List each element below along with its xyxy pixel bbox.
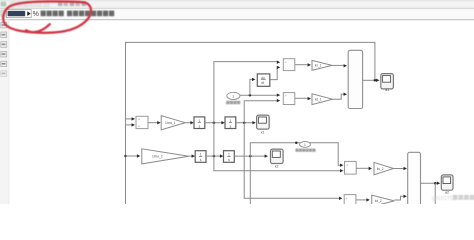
gain ks_1 xyxy=(312,60,332,70)
svg-text:%: % xyxy=(33,11,39,18)
left tool palette xyxy=(0,20,9,205)
svg-text:1: 1 xyxy=(230,119,232,123)
svg-text:-: - xyxy=(346,170,347,174)
wire into sum S3 top input xyxy=(338,163,341,165)
svg-text:ks_1: ks_1 xyxy=(315,64,322,68)
svg-text:1/mu_2: 1/mu_2 xyxy=(152,155,163,159)
svg-text:+: + xyxy=(285,60,287,64)
svg-text:+: + xyxy=(138,124,140,128)
integrator I3 xyxy=(195,151,206,163)
wire M2 to scope a2 xyxy=(421,182,438,184)
vertical wire from row1 node up to SB and down to S4 xyxy=(244,101,340,199)
palette icons xyxy=(1,22,7,76)
red pen tail stroke xyxy=(26,24,50,32)
mux M2 (clipped at bottom) xyxy=(408,152,421,208)
wire G2 to I3 xyxy=(189,155,193,157)
red hand-drawn ellipse annotation xyxy=(3,1,91,33)
wire S4 to gain kd_2 xyxy=(356,199,367,201)
wire ks_1 to mux M1 xyxy=(332,64,345,66)
outport oval P2 xyxy=(300,142,311,148)
gain ks_2 xyxy=(374,162,394,174)
node before outport oval xyxy=(295,141,298,144)
wire SB to gain kd_1 xyxy=(295,97,309,99)
integrator I4 xyxy=(224,151,235,163)
wire S1 to G1 xyxy=(148,122,158,124)
toolbar green icon xyxy=(1,2,7,7)
svg-text:a2: a2 xyxy=(445,191,449,195)
breadcrumb left icon xyxy=(1,10,6,16)
wire kd_1 to mux M1 with jog xyxy=(333,94,345,99)
svg-text:s: s xyxy=(230,124,232,128)
svg-text:-: - xyxy=(285,100,286,104)
breadcrumb bar xyxy=(0,9,474,19)
wire stub into sum S1 top input xyxy=(126,118,134,120)
sum S3 xyxy=(345,161,357,174)
wire S3 to gain ks_2 xyxy=(356,167,369,169)
svg-text:@51CTO: @51CTO xyxy=(432,196,455,202)
gain G1 1/ms_1 xyxy=(161,116,185,130)
window title chinese text (drawn as glyph blocks) xyxy=(41,11,115,17)
svg-text:+: + xyxy=(346,164,348,168)
wire stub into sum S1 bottom input xyxy=(126,124,134,126)
wire to gain G2 input xyxy=(126,155,138,157)
svg-text:-: - xyxy=(285,67,286,71)
sum SA xyxy=(283,59,295,71)
wire kd_2 to mux M2 with jog xyxy=(394,196,404,200)
long wire from node column x=213.9 down to sum S3 bottom input xyxy=(214,61,341,171)
mux M1 xyxy=(348,50,362,108)
wire top from node column to sum SA top input xyxy=(214,61,278,63)
wire branch down from M2 output node xyxy=(434,183,436,204)
svg-text:a1: a1 xyxy=(385,88,389,92)
svg-text:1: 1 xyxy=(200,153,202,157)
svg-text:+: + xyxy=(285,94,287,98)
svg-text:s: s xyxy=(200,158,202,162)
label under outport P2 (chinese) xyxy=(296,149,316,152)
svg-text:du: du xyxy=(261,76,265,80)
svg-text:x1: x1 xyxy=(261,131,265,135)
svg-text:ks_2: ks_2 xyxy=(377,167,384,171)
wire row2 branch down to bottom edge xyxy=(249,156,251,204)
top toolbar strip xyxy=(0,0,474,8)
svg-text:1: 1 xyxy=(304,143,306,147)
svg-text:dt: dt xyxy=(261,81,264,85)
label under inport P1 (chinese) xyxy=(226,101,240,104)
node on feedback wire row2 xyxy=(124,155,127,158)
sum S1 xyxy=(136,116,148,128)
svg-text:s: s xyxy=(199,124,201,128)
wire P1 to sum SB top input xyxy=(240,94,278,96)
scope a2 xyxy=(441,175,453,190)
svg-text:1: 1 xyxy=(232,94,234,98)
gain kd_1 xyxy=(312,94,333,105)
wire I4 to scope x2 xyxy=(234,155,265,157)
wire SA to gain ks_1 xyxy=(295,64,309,66)
sum SB xyxy=(283,93,295,105)
toolbar text marks xyxy=(58,2,86,6)
scope a1 xyxy=(381,74,394,89)
wire row2 branch up to outport wire xyxy=(250,143,338,164)
wire I2 to scope x1 xyxy=(236,122,254,124)
svg-text:s: s xyxy=(228,158,230,162)
svg-text:+: + xyxy=(138,118,140,122)
wire G1 to I1 xyxy=(185,122,191,124)
wire I3 to I4 with crossing node xyxy=(206,155,221,157)
gain kd_2 (clipped at bottom) xyxy=(372,195,395,206)
wire ks_2 to mux M2 xyxy=(394,168,405,170)
watermark 51CTO xyxy=(432,195,474,202)
model name combo box xyxy=(7,10,32,18)
svg-text:1/ms_1: 1/ms_1 xyxy=(165,121,176,125)
inport oval P1 road input xyxy=(227,92,240,99)
toolbar faint icons xyxy=(11,2,50,7)
scope x2 xyxy=(271,149,284,163)
svg-text:kd_2: kd_2 xyxy=(375,199,382,203)
svg-text:1: 1 xyxy=(228,153,230,157)
integrator I2 xyxy=(225,117,236,129)
wire branch up into derivative D1 xyxy=(250,79,253,95)
wire feedback loop top xyxy=(126,42,375,204)
wire I1 to I2 with crossing node xyxy=(205,122,223,124)
derivative D1 du/dt xyxy=(257,74,270,86)
svg-text:x2: x2 xyxy=(275,165,279,169)
wire M1 to scope a1 xyxy=(363,79,377,81)
svg-text:1: 1 xyxy=(199,119,201,123)
gain G2 1/mu_2 (row 2, long triangle) xyxy=(142,149,189,164)
wire D1 to sum SA bottom input xyxy=(270,67,278,79)
sum S4 (clipped at bottom) xyxy=(344,195,356,208)
scope x1 xyxy=(257,115,270,129)
svg-text:+: + xyxy=(346,197,348,201)
svg-text:kd_1: kd_1 xyxy=(315,97,322,101)
integrator I1 xyxy=(194,117,205,129)
